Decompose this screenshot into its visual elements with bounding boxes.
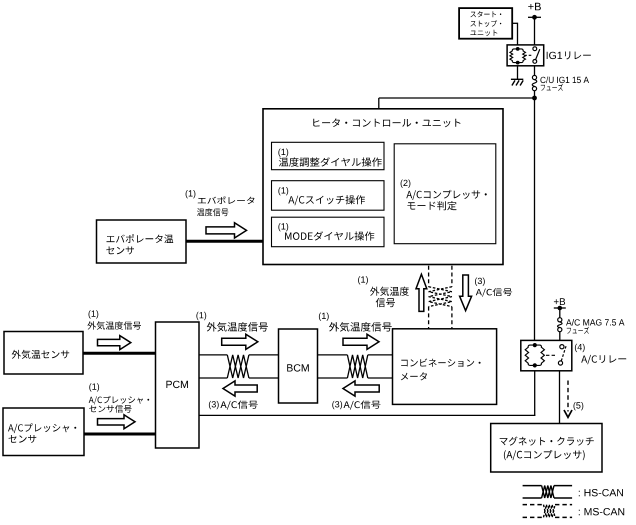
label magnet clutch line1 (500, 437, 594, 446)
A/C relay coil (525, 345, 544, 365)
legend MS-CAN wire right bottom (555, 516, 572, 518)
label (1) temp dial (278, 149, 288, 157)
label (1) PCM-BCM (196, 312, 206, 320)
label A/C signal meter-BCM (344, 401, 381, 410)
legend HS-CAN wire right bottom (554, 497, 572, 499)
MS-CAN twisted pair heater-meter (429, 287, 452, 307)
arrow ext temp signal to PCM (98, 336, 131, 350)
arrow meter to BCM (343, 381, 379, 396)
legend MS-CAN wire left top (523, 504, 544, 506)
wire PCM to BCM lower left (199, 377, 227, 379)
legend MS-CAN wire left bottom (523, 516, 544, 518)
ground (IG1 relay coil) (511, 79, 523, 85)
label evaporator sensor line1 (107, 234, 174, 243)
label ext temp signal BCM-meter (329, 322, 392, 332)
label IG1 relay (kana part) (565, 51, 591, 59)
wire corner to PCM (horizontal) (199, 414, 535, 416)
label A/C compressor line1 (406, 190, 487, 200)
wire BCM to meter lower right (368, 377, 393, 379)
label (1) pressure signal (89, 383, 99, 391)
HS-CAN twisted pair BCM-meter (347, 355, 367, 378)
label temp dial operation (279, 157, 382, 166)
wire start/stop unit to IG1 relay (horizontal) (512, 22, 517, 24)
dashed wire A/C relay to clutch (567, 381, 569, 412)
label start/stop unit line2 (471, 20, 502, 27)
+B terminal dot (A/C MAG) (558, 306, 563, 311)
box IG1 relay (507, 45, 544, 66)
label A/C pressure sensor line1 (8, 423, 76, 433)
wire IG1 relay contact to fuse (534, 63, 536, 76)
label A/C signal BCM-PCM (220, 401, 257, 410)
wire start/stop unit to IG1 relay (vertical) (517, 23, 519, 49)
IG1 coil top junction (516, 47, 520, 51)
label (1) up arrow (358, 276, 368, 284)
legend HS-CAN wire right top (554, 485, 572, 487)
label pressure signal line1 (89, 396, 150, 405)
label evaporator sensor line2 (106, 247, 134, 255)
label A/C switch operation (288, 195, 365, 205)
label start/stop unit line3 (470, 30, 497, 36)
IG1 relay coil-contact dashed link (524, 54, 532, 56)
label HS-CAN (579, 489, 623, 496)
label fuse A/C MAG (kana) (567, 327, 589, 334)
wire PCM to BCM upper right (249, 354, 279, 356)
wire BCM to meter upper left (318, 354, 348, 356)
label combination meter line2 (401, 372, 427, 380)
label A/C pressure sensor line2 (9, 435, 37, 443)
wire PCM to BCM upper left (199, 354, 227, 356)
dashed wire heater to meter right upper (451, 266, 453, 287)
label +B (IG1) (528, 3, 541, 11)
IG1 coil bottom junction (516, 61, 520, 65)
label A/C compressor line2 (408, 201, 457, 210)
box MODE dial operation (272, 217, 385, 247)
label magnet clutch line2 (504, 450, 585, 460)
box magnet clutch (491, 424, 602, 473)
label PCM (166, 381, 188, 388)
arrow evaporator temp signal (206, 223, 247, 238)
wire node A to A/C relay coil (534, 98, 536, 345)
label pressure signal line2 (89, 405, 131, 413)
legend HS-CAN twist (542, 486, 554, 498)
A/C relay coil-contact dashed link (546, 354, 557, 356)
label ext temp signal up line2 (376, 298, 395, 307)
label (3) BCM-PCM (209, 401, 219, 409)
arrowhead (5) (564, 410, 572, 417)
label evaporator temp signal line2 (197, 208, 228, 216)
label (1) BCM-meter (319, 313, 329, 321)
box evaporator temp sensor (97, 220, 187, 263)
+B terminal tick (A/C MAG) (554, 307, 566, 309)
label (1) ext temp signal left (89, 310, 99, 318)
wire node A to heater unit (horizontal) (379, 97, 535, 99)
box PCM (156, 322, 200, 448)
label (2) (401, 180, 411, 188)
label MS-CAN (579, 508, 624, 515)
label ext temp signal up line1 (370, 287, 409, 296)
label BCM (287, 364, 309, 371)
wire A/C relay contact to magnet clutch (559, 365, 561, 424)
A/C relay contact (558, 345, 566, 366)
box A/C compressor mode judge (394, 144, 496, 244)
label evaporator temp signal line1 (198, 196, 255, 204)
label ext temp sensor (12, 350, 69, 359)
fuse C/U IG1 15A (532, 75, 537, 90)
dashed wire heater to meter right lower (451, 307, 453, 329)
+B terminal tick (IG1) (528, 16, 541, 18)
label fuse A/C MAG 7.5 A (566, 319, 625, 326)
wire heater unit feed (vertical) (378, 98, 380, 109)
wire IG1 relay coil to ground (517, 63, 519, 80)
wire +B to A/C MAG fuse (559, 308, 561, 318)
arrow pressure signal to PCM (98, 415, 136, 429)
legend MS-CAN twist (544, 505, 556, 518)
label +B (A/C MAG) (554, 298, 565, 305)
box combination meter (393, 329, 497, 405)
label IG1 relay (latin part) (547, 52, 562, 59)
label MODE dial operation (285, 231, 374, 240)
wire evaporator sensor to heater unit (186, 240, 263, 243)
+B terminal dot (IG1) (532, 15, 537, 20)
fuse A/C MAG 7.5A (558, 318, 563, 332)
label (3) down arrow (475, 278, 485, 286)
arrow BCM to meter (343, 334, 379, 349)
box temp dial operation (272, 142, 385, 169)
wire fuse to node A (534, 91, 536, 98)
dashed wire heater to meter left upper (428, 266, 430, 287)
legend HS-CAN wire left top (523, 485, 542, 487)
label (1) MODE dial (278, 223, 288, 231)
label A/C relay (581, 355, 626, 364)
label (4) (575, 344, 585, 352)
wire +B to IG1 relay contact (534, 17, 536, 47)
arrow meter to heater (up) (416, 274, 427, 311)
box A/C relay (521, 340, 572, 370)
arrow BCM to PCM (223, 381, 257, 396)
box A/C switch operation (272, 181, 385, 211)
label ext temp signal left (87, 321, 141, 329)
arrow heater to meter (down) (460, 275, 472, 311)
box heater control unit (263, 109, 503, 265)
label fuse C/U IG1 (kana) (541, 84, 563, 91)
dashed wire heater to meter left lower (428, 307, 430, 329)
IG1 relay coil (510, 49, 526, 63)
box A/C pressure sensor (3, 408, 84, 456)
label start/stop unit line1 (471, 11, 502, 17)
box BCM (279, 329, 318, 403)
label (3) meter-BCM (332, 401, 342, 409)
wire BCM to meter upper right (368, 354, 393, 356)
node A junction (532, 96, 537, 101)
box start/stop unit (459, 8, 512, 39)
wire ext temp sensor to PCM (83, 352, 156, 355)
label fuse C/U IG1 15 A (540, 77, 589, 84)
wire A/C MAG fuse to A/C relay contact (559, 332, 561, 345)
label (1) evaporator signal (186, 190, 196, 198)
arrow PCM to BCM (222, 334, 258, 349)
A/C coil bottom junction (533, 363, 537, 367)
A/C coil top junction (533, 343, 537, 347)
legend MS-CAN wire right top (555, 504, 572, 506)
IG1 relay contact (533, 47, 540, 64)
label A/C signal down (476, 288, 512, 297)
wire PCM to BCM lower right (249, 377, 279, 379)
wire BCM to meter lower left (318, 377, 348, 379)
legend HS-CAN wire left bottom (523, 497, 542, 499)
label (1) A/C switch (278, 187, 288, 195)
label heater control unit (313, 118, 460, 127)
HS-CAN twisted pair PCM-BCM (227, 355, 249, 378)
label combination meter line1 (401, 359, 480, 367)
box ext temp sensor (4, 332, 83, 375)
wire A/C pressure sensor to PCM (84, 433, 156, 436)
wire A/C relay coil to corner (534, 365, 536, 415)
label ext temp signal PCM-BCM (207, 322, 268, 332)
label (5) (574, 402, 584, 410)
